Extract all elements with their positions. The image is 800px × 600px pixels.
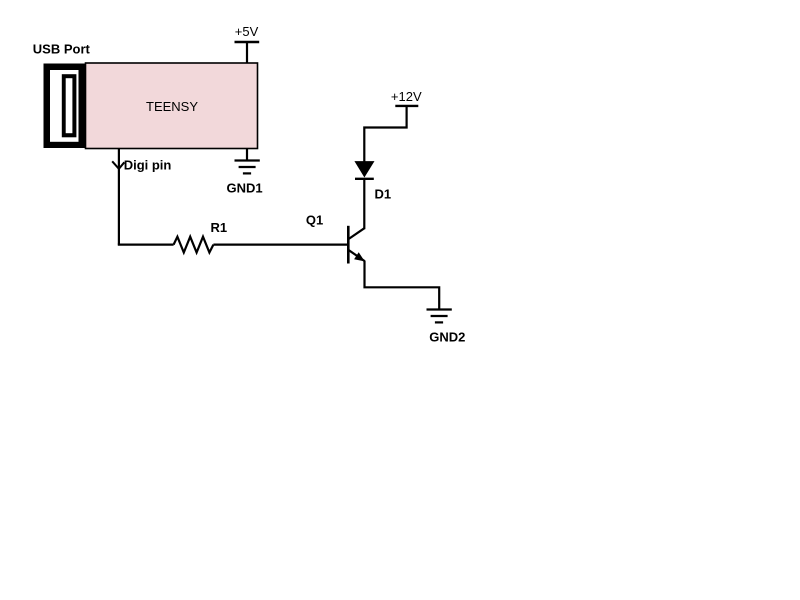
wire D1 anode to +12V bbox=[364, 106, 406, 163]
svg-text:+12V: +12V bbox=[391, 89, 422, 104]
svg-text:R1: R1 bbox=[211, 220, 228, 235]
wire Digi pin vertical bbox=[118, 149, 120, 245]
svg-text:+5V: +5V bbox=[235, 24, 259, 39]
wire Q1 collector to D1 cathode bbox=[363, 180, 365, 230]
USB port connector bbox=[44, 64, 86, 149]
+12V supply symbol bbox=[395, 105, 418, 107]
+5V supply symbol bbox=[235, 41, 260, 43]
svg-text:D1: D1 bbox=[375, 187, 392, 202]
svg-text:GND1: GND1 bbox=[227, 181, 263, 196]
svg-text:GND2: GND2 bbox=[429, 330, 465, 345]
diode D1 bbox=[355, 162, 374, 179]
wire Q1 emitter to GND2 bbox=[365, 261, 440, 310]
svg-text:TEENSY: TEENSY bbox=[146, 99, 198, 114]
resistor R1 bbox=[174, 237, 214, 253]
transistor Q1 bbox=[348, 226, 364, 264]
wire Digi pin to R1 bbox=[118, 244, 174, 246]
ground GND2 bbox=[427, 310, 452, 323]
svg-text:Digi pin: Digi pin bbox=[124, 157, 172, 172]
svg-text:Q1: Q1 bbox=[306, 212, 323, 227]
Digi pin arrow bbox=[112, 161, 124, 169]
wire R1 to Q1 base bbox=[213, 244, 348, 246]
svg-text:USB Port: USB Port bbox=[33, 41, 91, 56]
wire TEENSY to GND1 bbox=[246, 148, 248, 161]
wire +5V to TEENSY bbox=[246, 42, 248, 64]
TEENSY module body bbox=[86, 63, 258, 149]
ground GND1 bbox=[235, 161, 260, 174]
